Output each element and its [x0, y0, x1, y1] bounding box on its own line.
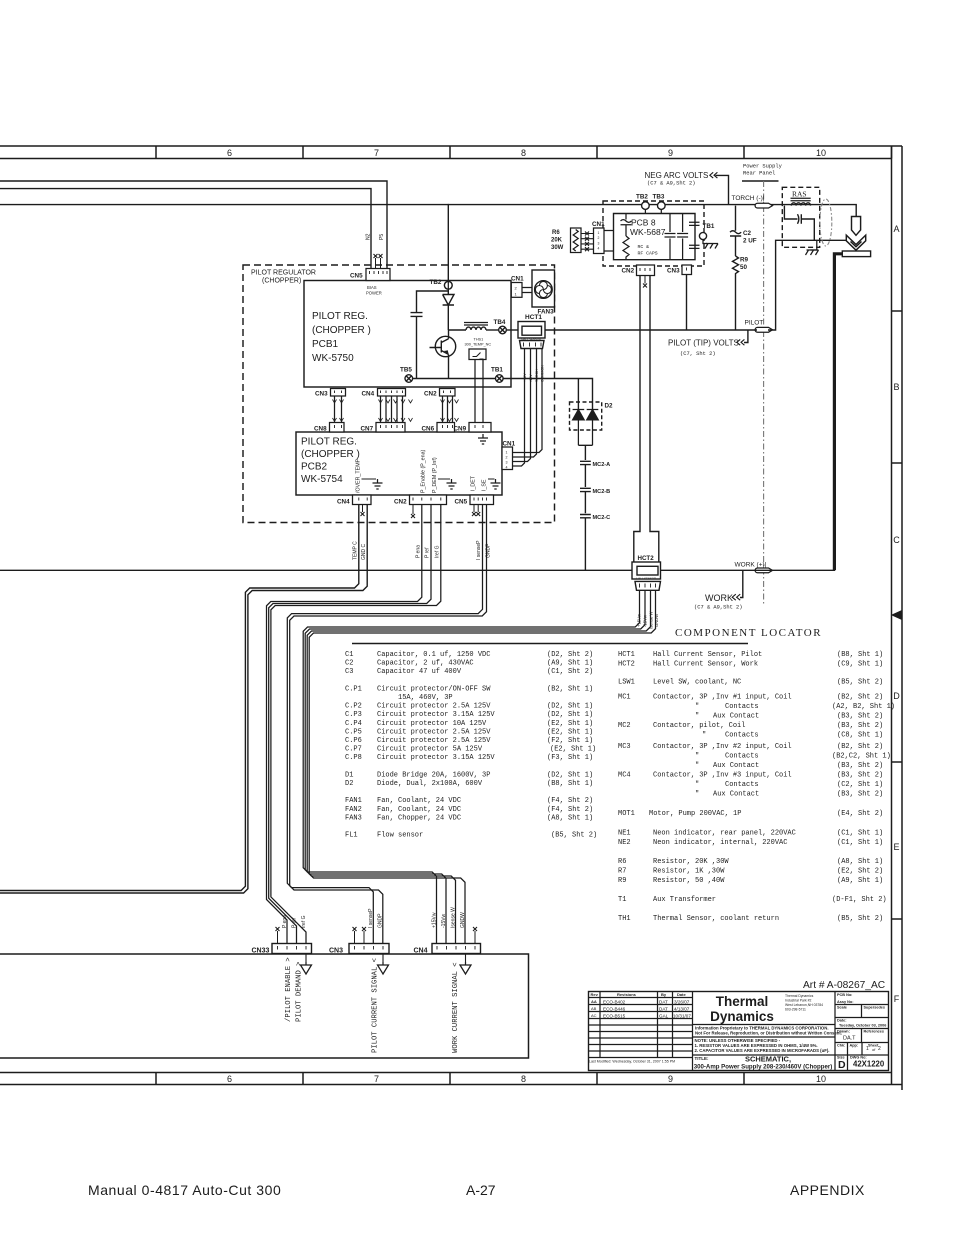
svg-text:Flow sensor: Flow sensor [377, 832, 423, 840]
PCB1 board [304, 281, 511, 388]
svg-text:WK-5754: WK-5754 [301, 474, 343, 485]
svg-text:(B3, Sht 2): (B3, Sht 2) [837, 772, 883, 780]
svg-text:Contacts: Contacts [725, 781, 759, 789]
TITLE BLOCK [589, 992, 889, 1071]
svg-text:(CHOPPER ): (CHOPPER ) [301, 449, 360, 460]
thermal dynamics logo [710, 994, 774, 1024]
frame coordinate labels [227, 148, 900, 1084]
svg-text:3: 3 [506, 461, 508, 465]
terminal TB1 (PCB8) [699, 232, 706, 239]
svg-text:C.P6: C.P6 [345, 737, 362, 745]
svg-text:R6: R6 [552, 230, 560, 236]
connector CN6 (PCB2 top) [437, 423, 455, 433]
svg-text:Thermal: Thermal [716, 994, 769, 1009]
wire: drop to TB2 of PCB1 [447, 205, 449, 282]
svg-text:MC3: MC3 [618, 743, 631, 751]
svg-text:(C1, Sht 1): (C1, Sht 1) [837, 839, 883, 847]
svg-text:/OVER_TEMP: /OVER_TEMP [356, 458, 362, 493]
svg-text:N2: N2 [366, 233, 372, 240]
svg-text:(F3, Sht 1): (F3, Sht 1) [547, 754, 593, 762]
svg-text:(B8, Sht 1): (B8, Sht 1) [837, 651, 883, 659]
svg-text:MC2-A: MC2-A [593, 462, 611, 468]
contact MC2-C [580, 515, 591, 571]
svg-text:3/26/07: 3/26/07 [674, 1000, 690, 1005]
svg-text:MC1: MC1 [618, 694, 631, 702]
svg-text:8: 8 [521, 1074, 526, 1084]
connector CN3 (PCB8 bottom) [682, 265, 692, 275]
svg-text:WK-5750: WK-5750 [312, 353, 354, 364]
svg-text:+12V: +12V [523, 373, 527, 382]
revision table [692, 992, 694, 1071]
svg-text:WORK CURRENT SIGNAL <: WORK CURRENT SIGNAL < [452, 962, 460, 1053]
connector CN9 (PCB2 top) [469, 423, 491, 433]
RAS capacitor branch [784, 206, 814, 241]
svg-text:(A9, Sht 1): (A9, Sht 1) [837, 877, 883, 885]
RAS ground stub [811, 240, 817, 250]
svg-text:(B8, Sht 1): (B8, Sht 1) [547, 780, 593, 788]
x stub on CN2 (PCB8) [644, 276, 646, 284]
svg-text:P5: P5 [379, 234, 385, 240]
svg-text:THS1: THS1 [474, 338, 484, 342]
svg-text:Capacitor, 0.1 uf, 1250 VDC: Capacitor, 0.1 uf, 1250 VDC [377, 651, 490, 659]
connector CN5 (PCB2 bottom) [470, 495, 494, 505]
svg-text:4: 4 [506, 466, 508, 470]
svg-text:Iref G: Iref G [434, 545, 440, 558]
ground arrows inside chassis box [305, 954, 307, 963]
rotated bundle labels below PCB2 [352, 540, 491, 560]
svg-text:(C2, Sht 1): (C2, Sht 1) [837, 781, 883, 789]
svg-text:9: 9 [668, 148, 673, 158]
FOOTER [88, 1182, 865, 1198]
connector CN7 (PCB2 top) [376, 423, 405, 433]
svg-text:C.P4: C.P4 [345, 720, 362, 728]
frame centre arrow [892, 611, 902, 620]
svg-text:PCB 8: PCB 8 [631, 218, 656, 228]
svg-text:Thermal Sensor, coolant return: Thermal Sensor, coolant return [653, 915, 779, 923]
svg-text:I_SE: I_SE [482, 479, 488, 491]
svg-text:CN4: CN4 [337, 499, 350, 506]
svg-text:HCT2: HCT2 [618, 661, 635, 669]
terminal TB2 (PCB8) [642, 202, 650, 210]
IGBT Q on PCB1 [430, 330, 456, 379]
svg-text:Neon indicator, internal, 220V: Neon indicator, internal, 220VAC [653, 839, 787, 847]
svg-text:Capacitor, 2 uf, 430VAC: Capacitor, 2 uf, 430VAC [377, 660, 474, 668]
bottom number strip [0, 1072, 892, 1074]
chassis box [0, 954, 529, 1058]
svg-text:Art # A-08267_AC: Art # A-08267_AC [803, 980, 885, 991]
svg-text:RF CAPS: RF CAPS [638, 251, 658, 257]
capacitor C2 [730, 206, 741, 256]
resistor R6 [571, 228, 582, 253]
svg-text:Industrial Park #2: Industrial Park #2 [785, 999, 811, 1003]
terminal TB5 [405, 375, 413, 383]
wire: main torch negative bus [0, 205, 856, 217]
svg-text:F: F [894, 994, 900, 1004]
svg-text:(CHOPPER): (CHOPPER) [262, 278, 301, 285]
svg-text:3: 3 [598, 241, 600, 245]
connector CN33 [272, 944, 312, 954]
svg-text:(B3, Sht 2): (B3, Sht 2) [837, 722, 883, 730]
inductor (transformer) on PCB1 [448, 323, 498, 331]
svg-text:C: C [893, 535, 900, 545]
svg-text:(C1, Sht 2): (C1, Sht 2) [547, 668, 593, 676]
svg-text:HCT1: HCT1 [618, 651, 635, 659]
wire +15Vw [303, 590, 639, 943]
svg-text:App:: App: [850, 1044, 859, 1048]
wire N2 from left edge into CN5 [0, 189, 371, 269]
fan FAN3 [532, 270, 555, 307]
svg-text:+15Vw: +15Vw [432, 912, 438, 928]
svg-text:NE2: NE2 [618, 839, 631, 847]
right column texts [837, 993, 885, 1060]
svg-text:Rear Panel: Rear Panel [743, 171, 775, 177]
wire TB5-TB1 bus to D2 [413, 379, 593, 403]
wires PCB8 CN2 down to HCT2 [634, 276, 659, 563]
right column [834, 992, 836, 1071]
svg-text:COMMON: COMMON [541, 365, 545, 382]
svg-text:LSW1: LSW1 [618, 679, 635, 687]
svg-text:TB3: TB3 [653, 194, 665, 201]
svg-text:CN3: CN3 [315, 391, 328, 398]
svg-text:9: 9 [668, 1074, 673, 1084]
svg-text:GND C: GND C [361, 544, 367, 561]
svg-text:TB5: TB5 [400, 367, 412, 374]
svg-text:": " [695, 703, 699, 711]
wire Isense_W [307, 590, 650, 943]
svg-text:1: 1 [506, 451, 508, 455]
svg-text:(D2, Sht 2): (D2, Sht 2) [547, 651, 593, 659]
svg-text:Capacitor 47 uf 400V: Capacitor 47 uf 400V [377, 668, 462, 676]
connector CN4 (PCB1 bottom) [378, 389, 406, 397]
svg-text:1: 1 [598, 231, 600, 235]
svg-text:P ref: P ref [292, 917, 298, 928]
svg-text:D2: D2 [345, 780, 353, 788]
svg-text:Tuesday, October 03, 2006: Tuesday, October 03, 2006 [839, 1024, 886, 1028]
centre cells [693, 1024, 836, 1026]
svg-text:TORCH (-)|: TORCH (-)| [732, 195, 765, 202]
right letter strip [891, 146, 893, 1073]
diode on PCB1 [443, 289, 454, 330]
svg-text:NE1: NE1 [618, 830, 631, 838]
terminal TB2 (PCB1) [444, 281, 452, 289]
svg-text:MC2-C: MC2-C [593, 515, 611, 521]
svg-text:2 UF: 2 UF [743, 238, 757, 245]
svg-text:C.P8: C.P8 [345, 754, 362, 762]
svg-text:-12V: -12V [529, 374, 533, 382]
svg-text:Resistor, 20K ,30W: Resistor, 20K ,30W [653, 858, 729, 866]
svg-text:Circuit protector 2.5A 125V: Circuit protector 2.5A 125V [377, 737, 491, 745]
wires CN3 to CN8 [335, 396, 342, 423]
svg-text:CN2: CN2 [424, 391, 437, 398]
svg-text:20K: 20K [551, 238, 563, 244]
connector CN3 (PCB1 bottom) [331, 389, 346, 397]
svg-text:T1: T1 [618, 896, 626, 904]
svg-text:D: D [838, 1059, 846, 1071]
work lead block [842, 251, 870, 257]
svg-text:(B5, Sht 2): (B5, Sht 2) [551, 832, 597, 840]
svg-text:C2: C2 [743, 230, 752, 237]
svg-text:FAN1: FAN1 [345, 797, 362, 805]
svg-text:E: E [893, 842, 899, 852]
top number strip [0, 145, 902, 147]
svg-text:DA.T: DA.T [843, 1036, 856, 1042]
svg-text:P ref: P ref [425, 547, 431, 558]
svg-text:Manual 0-4817 Auto-Cut 300: Manual 0-4817 Auto-Cut 300 [88, 1182, 281, 1198]
svg-text:CN4: CN4 [362, 391, 375, 398]
svg-text:Fan, Chopper, 24 VDC: Fan, Chopper, 24 VDC [377, 814, 461, 822]
svg-text:(C7 & A9,Sht 2): (C7 & A9,Sht 2) [694, 605, 743, 611]
torch tip chevron [846, 235, 865, 250]
svg-text:AA: AA [591, 999, 597, 1004]
PCB8 internal caps [665, 214, 700, 260]
svg-text:(C7 & A9,Sht 2): (C7 & A9,Sht 2) [647, 181, 696, 187]
svg-text:(E2, Sht 1): (E2, Sht 1) [547, 720, 593, 728]
svg-text:GNDW: GNDW [460, 912, 466, 928]
svg-text:Contactor, pilot, Coil: Contactor, pilot, Coil [653, 722, 745, 730]
svg-text:Circuit protector 5A 125V: Circuit protector 5A 125V [377, 746, 483, 754]
torch body dash-dot ellipse [820, 199, 832, 246]
rotated chassis signal labels [285, 957, 460, 1053]
svg-text:CN3: CN3 [667, 268, 680, 275]
terminal TB4 [499, 326, 507, 334]
svg-text:ECO-B515: ECO-B515 [603, 1014, 626, 1019]
svg-text:D1: D1 [345, 771, 353, 779]
svg-text:Aux Contact: Aux Contact [713, 791, 759, 799]
svg-text:(B3, Sht 2): (B3, Sht 2) [837, 713, 883, 721]
svg-text:Date:: Date: [837, 1019, 847, 1023]
diode D2b [587, 410, 599, 446]
svg-text:Circuit protector/ON-OFF SW: Circuit protector/ON-OFF SW [377, 685, 491, 693]
svg-text:MC4: MC4 [618, 772, 631, 780]
svg-text:P ena: P ena [415, 545, 421, 558]
signal ground below CN9 [478, 434, 488, 444]
svg-text:P ena: P ena [282, 915, 288, 928]
svg-text:NEG ARC VOLTS: NEG ARC VOLTS [645, 171, 709, 180]
svg-text:PCB2: PCB2 [301, 462, 328, 473]
svg-text:(A8, Sht 1): (A8, Sht 1) [547, 814, 593, 822]
pilot lead: HCT1 out to torch tip [545, 240, 846, 330]
svg-text:(B2, Sht 2): (B2, Sht 2) [837, 743, 883, 751]
svg-text:(C7, Sht 2): (C7, Sht 2) [680, 351, 716, 357]
svg-text:Diode, Dual, 2x100A, 600V: Diode, Dual, 2x100A, 600V [377, 780, 483, 788]
svg-text:(A8, Sht 1): (A8, Sht 1) [837, 858, 883, 866]
svg-text:Circuit protector 3.15A 125V: Circuit protector 3.15A 125V [377, 754, 495, 762]
x stubs on CN5 pins [376, 258, 381, 269]
capacitor on PCB1 [411, 291, 449, 379]
svg-text:/PILOT ENABLE >: /PILOT ENABLE > [285, 957, 293, 1022]
svg-text:Not For Release, Reproduction,: Not For Release, Reproduction, or Distri… [695, 1031, 842, 1036]
connector CN2 (PCB2 bottom) [410, 495, 447, 505]
svg-text:WORK: WORK [705, 593, 733, 603]
svg-text:Fan, Coolant, 24 VDC: Fan, Coolant, 24 VDC [377, 797, 461, 805]
svg-text:R6: R6 [618, 858, 626, 866]
svg-text:CN9: CN9 [454, 426, 467, 433]
wire -15Vw [305, 590, 645, 943]
svg-text:": " [695, 713, 699, 721]
svg-text:DAT: DAT [659, 1007, 668, 1012]
svg-text:References: References [864, 1030, 884, 1034]
svg-text:10/31/07: 10/31/07 [673, 1014, 691, 1019]
svg-text:Dynamics: Dynamics [710, 1009, 774, 1024]
svg-text:DAT: DAT [659, 1000, 668, 1005]
svg-text:50: 50 [740, 264, 748, 271]
svg-text:": " [695, 791, 699, 799]
svg-text:(B2, Sht 2): (B2, Sht 2) [837, 694, 883, 702]
PCB8 outline [614, 214, 696, 260]
svg-text:of: of [872, 1047, 876, 1052]
svg-text:R9: R9 [618, 877, 626, 885]
svg-text:PCB No:: PCB No: [837, 993, 852, 997]
svg-text:(B3, Sht 2): (B3, Sht 2) [837, 762, 883, 770]
svg-text:PCB1: PCB1 [312, 339, 339, 350]
svg-text:FL1: FL1 [345, 832, 358, 840]
svg-text:HALL SENSOR: HALL SENSOR [637, 577, 656, 581]
svg-text:C.P7: C.P7 [345, 746, 362, 754]
svg-text:Circuit protector 10A 125V: Circuit protector 10A 125V [377, 720, 487, 728]
svg-text:PILOT REGULATOR: PILOT REGULATOR [251, 270, 316, 277]
diode D2a [573, 410, 585, 446]
resistor R9 [733, 256, 739, 330]
svg-text:42X1220: 42X1220 [853, 1060, 885, 1069]
svg-text:C.P3: C.P3 [345, 711, 362, 719]
svg-text:TB1: TB1 [703, 223, 715, 230]
svg-text:PILOT (TIP) VOLTS: PILOT (TIP) VOLTS [668, 339, 739, 348]
wires CN2 to CN6 [443, 396, 453, 423]
svg-text:Motor, Pump 200VAC, 1P: Motor, Pump 200VAC, 1P [649, 810, 741, 818]
dashed box PCB8 [603, 201, 704, 266]
wire TEMP_C [0, 505, 359, 891]
svg-text:15A, 460V, 3P: 15A, 460V, 3P [398, 694, 453, 702]
svg-text:Aux Transformer: Aux Transformer [653, 896, 716, 904]
svg-text:Assy No:: Assy No: [837, 1000, 853, 1004]
svg-text:CN1: CN1 [592, 221, 605, 228]
x stubs below PCB2 connectors [363, 505, 479, 515]
svg-text:CN33: CN33 [252, 948, 270, 955]
svg-text:2. CAPACITOR VALUES ARE EXPRES: 2. CAPACITOR VALUES ARE EXPRESSED IN MIC… [695, 1048, 830, 1053]
svg-text:(B5, Sht 2): (B5, Sht 2) [837, 679, 883, 687]
svg-text:(D2, Sht 1): (D2, Sht 1) [547, 771, 593, 779]
svg-text:AC: AC [591, 1013, 597, 1018]
svg-text:I senseP: I senseP [368, 908, 374, 928]
wire Iref_G [271, 505, 441, 944]
svg-text:(C1, Sht 1): (C1, Sht 1) [837, 830, 883, 838]
svg-text:-15Vw: -15Vw [441, 913, 447, 928]
svg-text:": " [695, 753, 699, 761]
svg-text:P_Enable (P_ena): P_Enable (P_ena) [421, 449, 427, 493]
svg-text:6: 6 [227, 1074, 232, 1084]
svg-text:RAS: RAS [792, 190, 807, 199]
connector CN1 (PCB8 left) [594, 228, 605, 254]
PCB2 board [296, 432, 502, 495]
svg-text:Iref G: Iref G [301, 915, 307, 928]
connector CN1 (PCB1 right, to FAN3) [511, 283, 522, 298]
svg-text:Supersedes: Supersedes [864, 1006, 886, 1010]
svg-text:D2: D2 [605, 403, 614, 410]
svg-text:Circuit protector 2.5A 125V: Circuit protector 2.5A 125V [377, 728, 491, 736]
svg-text:Resistor, 50 ,40W: Resistor, 50 ,40W [653, 877, 725, 885]
svg-text:FAN2: FAN2 [345, 806, 362, 814]
svg-text:CN6: CN6 [422, 426, 435, 433]
svg-text:C.P1: C.P1 [345, 685, 362, 693]
svg-text:P_DEM (P_Inf): P_DEM (P_Inf) [432, 457, 438, 493]
svg-text:4: 4 [598, 247, 600, 251]
svg-text:(B5, Sht 2): (B5, Sht 2) [837, 915, 883, 923]
svg-text:GNDP: GNDP [378, 913, 384, 928]
rotated net labels inside PCB2 [356, 449, 488, 493]
svg-text:HALL SENSOR: HALL SENSOR [522, 337, 541, 341]
svg-text:Thermal Dynamics: Thermal Dynamics [785, 994, 814, 998]
svg-text:7: 7 [374, 148, 379, 158]
svg-text:C1: C1 [345, 651, 353, 659]
svg-text:(E4, Sht 2): (E4, Sht 2) [837, 810, 883, 818]
svg-text:C3: C3 [345, 668, 353, 676]
svg-text:MC2: MC2 [618, 722, 631, 730]
svg-text:CN5: CN5 [350, 273, 363, 280]
svg-text:Last Modified: Wednesday, Octo: Last Modified: Wednesday, October 31, 20… [589, 1060, 675, 1064]
svg-text:(CHOPPER ): (CHOPPER ) [312, 325, 371, 336]
svg-text:Scale: Scale [837, 1006, 847, 1010]
contact MC2-B [580, 488, 591, 513]
svg-text:TB2: TB2 [636, 194, 648, 201]
svg-text:Contactor, 3P ,Inv #2 input, C: Contactor, 3P ,Inv #2 input, Coil [653, 743, 792, 751]
svg-text:(D2, Sht 1): (D2, Sht 1) [547, 711, 593, 719]
svg-text:CN3: CN3 [329, 948, 343, 955]
svg-text:TB1: TB1 [491, 367, 503, 374]
svg-text:8: 8 [521, 148, 526, 158]
svg-text:Neon indicator, rear panel, 22: Neon indicator, rear panel, 220VAC [653, 830, 796, 838]
svg-text:300-Amp Power Supply 208-230/4: 300-Amp Power Supply 208-230/460V (Chopp… [694, 1064, 833, 1071]
svg-text:CN1: CN1 [511, 276, 524, 283]
connector CN5 on PCB1 [366, 269, 390, 281]
svg-text:TITLE:: TITLE: [695, 1056, 709, 1061]
svg-text:CN7: CN7 [361, 426, 374, 433]
connector CN2 (PCB8 bottom) [637, 265, 655, 276]
svg-text:Aux Contact: Aux Contact [713, 762, 759, 770]
svg-text:GNDP: GNDP [486, 543, 492, 558]
svg-text:1: 1 [866, 1046, 869, 1052]
svg-text:6: 6 [227, 148, 232, 158]
svg-text:PILOT: PILOT [745, 320, 764, 327]
svg-text:(D2, Sht 1): (D2, Sht 1) [547, 703, 593, 711]
svg-text:Circuit protector 2.5A 125V: Circuit protector 2.5A 125V [377, 703, 491, 711]
contact MC2-A [580, 461, 591, 487]
svg-text:(A2, B2, Sht 1): (A2, B2, Sht 1) [832, 703, 895, 711]
thick work lead [834, 254, 842, 571]
svg-text:GAL: GAL [659, 1014, 669, 1019]
svg-text:2: 2 [598, 236, 600, 240]
wire PCB8 CN3 to pilot line [686, 275, 688, 331]
svg-text:(F4, Sht 2): (F4, Sht 2) [547, 797, 593, 805]
svg-text:PILOT REG.: PILOT REG. [301, 437, 357, 448]
svg-text:CN4: CN4 [414, 948, 428, 955]
svg-text:CN5: CN5 [455, 499, 468, 506]
svg-text:CN2: CN2 [622, 268, 635, 275]
svg-text:PILOT REG.: PILOT REG. [312, 311, 368, 322]
svg-text:Level SW, coolant, NC: Level SW, coolant, NC [653, 679, 741, 687]
svg-text:Hall Current Sensor, Pilot: Hall Current Sensor, Pilot [653, 651, 762, 659]
svg-text:B: B [893, 382, 899, 392]
earth ground at TB1 (PCB8) [703, 240, 707, 244]
svg-text:(E2, Sht 2): (E2, Sht 2) [837, 868, 883, 876]
svg-text:GNDW: GNDW [654, 614, 659, 627]
svg-text:C.P5: C.P5 [345, 728, 362, 736]
svg-text:TB2: TB2 [430, 279, 442, 286]
svg-text:D: D [893, 691, 900, 701]
svg-text:HCT1: HCT1 [525, 314, 542, 321]
wire GNDW [309, 590, 655, 943]
svg-text:7: 7 [374, 1074, 379, 1084]
svg-text:": " [695, 762, 699, 770]
